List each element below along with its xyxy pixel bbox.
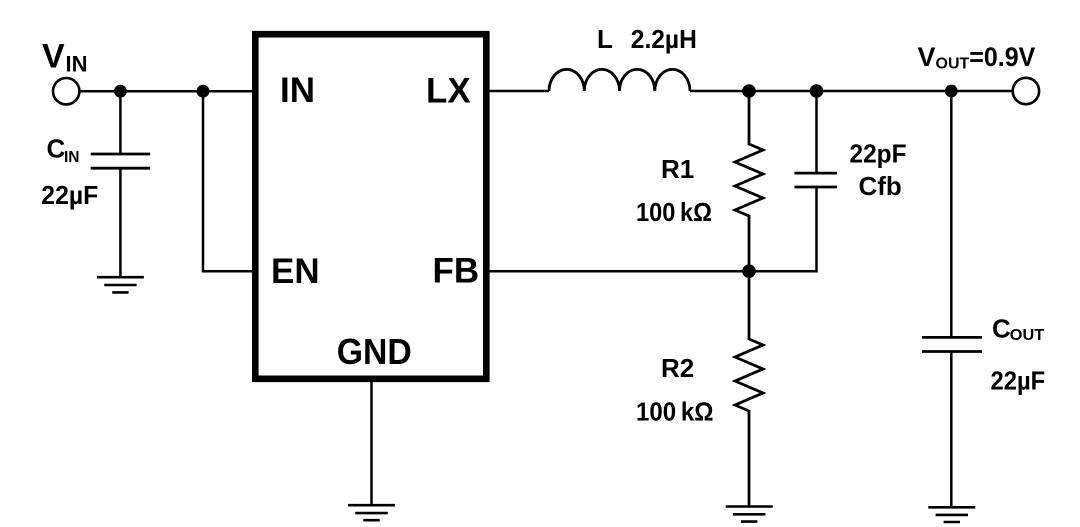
node A junction dot (CIN tap): [114, 85, 127, 98]
svg-text:L: L: [597, 24, 613, 54]
wire COUT bottom: [950, 352, 953, 508]
ground (under COUT): [928, 507, 975, 522]
wire CIN bottom: [119, 168, 122, 277]
label COUT: [992, 313, 1045, 344]
svg-text:V: V: [918, 42, 936, 72]
svg-text:R1: R1: [661, 154, 694, 184]
ground (under CIN): [97, 277, 144, 292]
resistor R2: [735, 271, 763, 506]
svg-text:IN: IN: [66, 51, 88, 76]
node LX-R1 junction dot: [742, 84, 756, 98]
svg-text:IN: IN: [64, 149, 80, 166]
terminal VIN: [53, 78, 79, 104]
capacitor Cfb: [794, 173, 837, 187]
node B junction dot (EN tap): [197, 85, 210, 98]
svg-text:100 kΩ: 100 kΩ: [636, 197, 712, 227]
ground (under R2): [726, 507, 773, 522]
wire FB: [486, 270, 749, 273]
label CIN: [47, 134, 80, 166]
svg-text:LX: LX: [426, 72, 471, 111]
wire LX to inductor: [486, 90, 549, 93]
wire EN (node B down and right to EN pin): [203, 91, 253, 271]
wire input rail: [80, 90, 253, 93]
wire Cfb top: [815, 91, 818, 173]
ground (under GND pin): [348, 505, 395, 520]
node VOUT junction dot: [945, 85, 958, 98]
capacitor COUT: [922, 337, 982, 351]
svg-text:OUT: OUT: [1010, 327, 1045, 344]
svg-text:100 kΩ: 100 kΩ: [636, 397, 714, 427]
svg-text:22pF: 22pF: [850, 139, 907, 169]
wire inductor to VOUT node: [690, 90, 951, 93]
capacitor CIN: [91, 154, 151, 168]
svg-text:R2: R2: [661, 353, 694, 383]
svg-text:22µF: 22µF: [991, 366, 1046, 396]
svg-text:GND: GND: [337, 331, 412, 372]
terminal VOUT: [1013, 78, 1039, 104]
svg-text:C: C: [47, 134, 66, 164]
wire Cfb bottom: [749, 187, 817, 271]
node FB junction dot: [742, 264, 756, 278]
svg-text:FB: FB: [433, 251, 480, 290]
wire COUT top: [950, 91, 953, 337]
IC U1 box: [255, 34, 486, 379]
svg-text:22µF: 22µF: [41, 180, 98, 210]
inductor L1: [549, 69, 690, 91]
svg-text:EN: EN: [271, 252, 320, 291]
wire GND pin: [370, 382, 373, 505]
wire VOUT node to terminal: [951, 90, 1012, 93]
svg-text:V: V: [42, 38, 65, 76]
resistor R1: [735, 91, 763, 271]
svg-text:=0.9V: =0.9V: [969, 42, 1035, 72]
node Cfb-top junction dot: [810, 84, 824, 98]
svg-text:C: C: [992, 313, 1011, 343]
svg-text:Cfb: Cfb: [859, 171, 902, 201]
svg-text:2.2µH: 2.2µH: [631, 24, 697, 54]
wire CIN top: [119, 91, 122, 154]
node VIN label: [42, 38, 88, 77]
node VOUT label: [918, 42, 1036, 73]
svg-text:IN: IN: [280, 71, 315, 110]
svg-text:OUT: OUT: [936, 56, 970, 73]
